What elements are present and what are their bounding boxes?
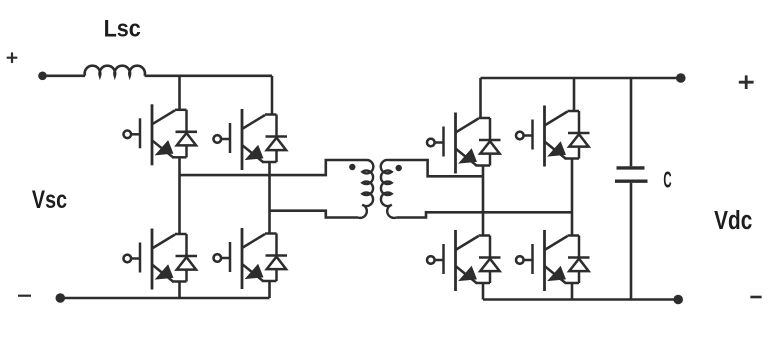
IGBT Q7 right bridge bottom-left [427,230,501,291]
wire top rail left bridge [145,75,272,78]
wire leg1 bottom [178,282,181,299]
wire leg5 middle [482,166,485,236]
wire leg1 collector [178,76,181,110]
IGBT Q6 right bridge top-right [516,106,590,167]
plus sign left [7,52,18,63]
terminal node left top [38,72,47,81]
capacitor C top lead [630,78,633,166]
transformer secondary polarity dot [396,165,402,171]
svg-text:Vdc: Vdc [714,206,752,235]
wire phase A to transformer [180,160,368,175]
minus sign right [750,296,761,299]
IGBT Q1 left bridge top-left [124,104,198,165]
wire left top [43,75,86,78]
terminal node right top [676,73,686,83]
wire leg6 bottom [571,283,574,300]
IGBT Q3 left bridge bottom-left [124,229,198,290]
svg-text:Vsc: Vsc [32,186,67,214]
capacitor C top plate [617,166,645,169]
wire leg6 collector [573,78,576,111]
wire transformer secondary top to right bridge [389,160,484,176]
wire leg5 collector [479,78,482,118]
svg-text:C: C [663,167,671,192]
wire bottom rail right bridge [483,298,678,301]
capacitor C bottom plate [615,179,648,182]
IGBT Q5 right bridge top-left [427,113,501,174]
terminal node left bottom [56,293,66,303]
wire top rail right bridge [481,77,681,80]
transformer primary winding [358,160,373,218]
capacitor C bottom lead [630,183,633,300]
wire leg5 bottom [482,283,485,300]
wire leg2 bottom [268,281,271,298]
terminal node right bottom [673,295,683,305]
wire leg2 middle [268,162,271,234]
transformer secondary winding [381,160,396,218]
wire transformer secondary bottom to right bridge [396,212,572,217]
minus sign left [18,295,31,297]
transformer primary polarity dot [349,164,355,170]
svg-text:Lsc: Lsc [104,14,142,41]
IGBT Q8 right bridge bottom-right [516,230,590,291]
inductor Lsc [85,66,145,76]
wire leg1 middle [178,157,181,234]
wire phase B to transformer [270,211,359,218]
IGBT Q4 left bridge bottom-right [214,228,288,289]
wire bottom rail left bridge [60,297,269,300]
plus sign right [739,75,754,89]
wire leg6 middle [571,159,574,236]
wire leg2 collector [271,76,274,115]
IGBT Q2 left bridge top-right [214,109,288,170]
